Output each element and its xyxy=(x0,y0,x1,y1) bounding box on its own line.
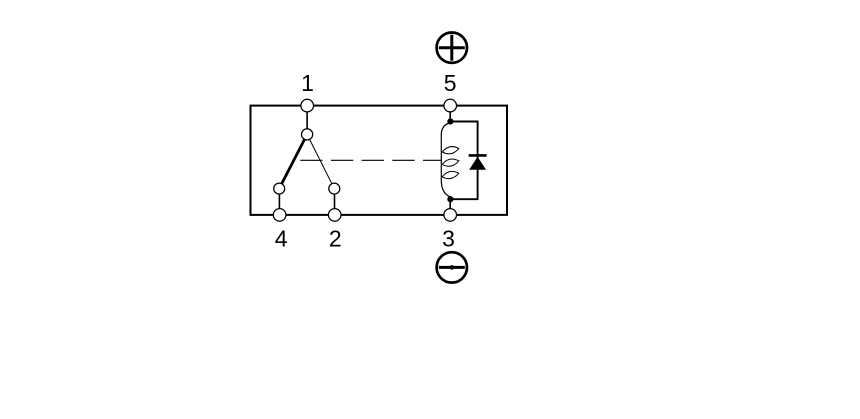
svg-text:5: 5 xyxy=(444,70,457,96)
svg-text:4: 4 xyxy=(275,225,288,251)
svg-text:2: 2 xyxy=(329,225,342,251)
svg-text:1: 1 xyxy=(301,70,314,96)
svg-text:3: 3 xyxy=(442,225,455,251)
